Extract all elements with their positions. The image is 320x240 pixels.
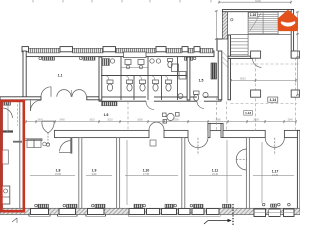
stair landing line [231, 33, 292, 36]
wc stall 4 toilet [153, 80, 159, 84]
arc [157, 122, 165, 130]
sanitary mid horizontal [101, 75, 187, 77]
room dim line 2 [86, 175, 112, 177]
svg-text:1.10: 1.10 [143, 169, 150, 173]
stair door knob circle [231, 19, 233, 21]
radiator south right [271, 204, 277, 207]
radiator under north window 1 [43, 57, 55, 60]
door arcs at 265-284 down [265, 138, 275, 148]
valve [193, 57, 196, 60]
valve [63, 204, 66, 207]
wc right room toilet [194, 91, 200, 94]
svg-text:1610: 1610 [89, 119, 95, 122]
room divider wall 1 [79, 138, 82, 209]
dashed hall column line 2 [295, 58, 297, 131]
room dim line 1 [30, 175, 75, 177]
room dim line 5 [253, 175, 294, 177]
east exterior wall lower [297, 130, 300, 209]
sink 1 [104, 59, 108, 63]
closet room1 a [27, 140, 34, 148]
valve [35, 204, 38, 207]
stair block south wall [228, 56, 253, 58]
sanitary block west wall [99, 57, 102, 100]
room 1.1 double door bump arc 2 [72, 90, 86, 97]
entrance arrow [208, 220, 231, 222]
stall door arc 1 [105, 76, 110, 81]
counter under north window 3 [124, 52, 147, 58]
stair exit arc [253, 58, 262, 67]
center dashed [274, 138, 276, 155]
wc stall 3 toilet [140, 80, 146, 84]
pier [156, 47, 166, 52]
corridor south wall segment B [164, 130, 188, 137]
svg-text:15,60: 15,60 [55, 173, 62, 176]
room interior dim vertical 2 [226, 140, 228, 203]
left unit stub wall 2 [13, 141, 22, 143]
corridor boxed label [244, 111, 253, 116]
hall dim ticks [230, 79, 297, 82]
valve [174, 204, 177, 207]
radiator south room3 a [134, 204, 143, 208]
stair west lower jog [217, 39, 222, 51]
corridor dimension line [26, 121, 296, 123]
room divider wall 4 [246, 138, 249, 209]
column pier hall SW [251, 90, 261, 97]
svg-text:6200: 6200 [255, 0, 261, 3]
left dim ticks [7, 103, 10, 132]
window [179, 209, 191, 215]
svg-text:14,20: 14,20 [272, 174, 279, 177]
unit door arc [2, 108, 12, 118]
corridor chair 3 [163, 120, 167, 124]
sink 3 [150, 59, 154, 63]
svg-text:1.14: 1.14 [269, 98, 276, 102]
right dim ticks [296, 11, 299, 96]
dashed hall horizontal [231, 63, 301, 65]
corridor chair 1 [163, 113, 167, 117]
room3 entry fixture [150, 140, 156, 146]
window sill [86, 214, 106, 216]
sanitary partition v4 [161, 76, 163, 101]
valve [278, 203, 281, 206]
sanitary partition v2 [133, 76, 135, 101]
column pier hall SE [291, 90, 299, 97]
window right 3 [284, 209, 294, 217]
left unit stub wall [0, 130, 13, 132]
upper fixture circle [126, 65, 130, 69]
valve circle [39, 57, 42, 60]
dashed grid v2 [226, 101, 228, 130]
hall dimension line [231, 80, 296, 82]
stair diagonal [250, 13, 262, 32]
left vertical dim line [7, 104, 9, 131]
hall west wall [228, 35, 231, 100]
valve [190, 204, 193, 207]
center dashed [197, 138, 199, 155]
bump center line [71, 90, 73, 97]
red highlight outline of unit [1, 101, 23, 211]
sink 4 [156, 59, 160, 63]
svg-text:1.9: 1.9 [92, 169, 97, 173]
dashed hall column line 1 [255, 58, 257, 130]
arc [236, 160, 246, 171]
fixture circle room 1.4 [178, 94, 183, 99]
corridor transverse double door arc right [48, 121, 54, 133]
west exterior wall lower [0, 100, 2, 210]
valve [92, 204, 95, 207]
arc [275, 138, 285, 148]
appliance box 1 [172, 64, 179, 72]
closet room1 b [34, 140, 41, 148]
stair block north wall [222, 10, 293, 12]
sanitary partition v5 [177, 57, 179, 100]
window [207, 209, 220, 215]
svg-text:1.6: 1.6 [104, 113, 109, 117]
door leaf [29, 100, 31, 111]
top dim ticks [218, 1, 292, 4]
door arc room TL [41, 87, 51, 97]
window ribbon [200, 48, 213, 53]
arc [198, 138, 208, 148]
valve circle [79, 57, 82, 60]
corridor north wall segment [87, 97, 100, 100]
transverse door knob [46, 143, 49, 146]
radiator south room1 b [67, 204, 78, 208]
pier [194, 47, 200, 52]
svg-text:5010: 5010 [240, 77, 246, 81]
door gap in sanitary south wall [197, 96, 204, 101]
radiator south room4 b [223, 204, 232, 208]
valve [288, 203, 291, 206]
wc stall 5 toilet [166, 80, 172, 84]
upper fixture a [125, 60, 131, 65]
watermark logo smile [281, 21, 296, 26]
room 1.1 double door bump arc 1 [57, 90, 71, 97]
pier [60, 47, 73, 52]
shower tray [103, 59, 110, 66]
radiator south room3 b [165, 204, 174, 208]
dashed corridor v [127, 101, 129, 130]
svg-text:2600: 2600 [253, 119, 259, 122]
stall counter line [121, 67, 148, 69]
boxed room label 1.14 [268, 97, 278, 102]
corridor south wall segment C [223, 130, 265, 137]
window ribbon [188, 48, 194, 53]
radiator south room1 a [38, 204, 49, 208]
stall door arc 4 [151, 76, 156, 81]
svg-text:1.8: 1.8 [56, 169, 61, 173]
left fixture circle [4, 189, 8, 193]
vestibule wall room1 [70, 138, 72, 154]
upper fixture circle b [139, 65, 143, 69]
corridor south wall segment A [54, 130, 149, 137]
room dim line 3 [125, 175, 178, 177]
steps upper flight [248, 12, 278, 34]
svg-text:9,80: 9,80 [92, 173, 97, 176]
highlighted unit east wall [20, 100, 25, 209]
room dim line 4 [189, 175, 242, 177]
corridor transverse lintel [42, 120, 54, 122]
bay connector right [221, 123, 223, 137]
north exterior wall band [23, 51, 214, 57]
divider door arcs x247 [236, 149, 246, 160]
stair west hatched wall [222, 10, 227, 39]
room divider wall 3 [182, 138, 185, 209]
dashed grid v1 [216, 97, 218, 130]
column pier hall NE [291, 51, 299, 58]
watermark logo house [278, 10, 298, 31]
window right 2 [269, 209, 281, 217]
column pier hall NW [251, 51, 261, 58]
stall door arc 2 [125, 76, 130, 81]
shaft hatch lines [223, 52, 228, 67]
pier [182, 47, 188, 52]
left fixture line [2, 196, 10, 198]
room interior dim vertical right [261, 142, 263, 203]
window ribbon hatch on north wall [29, 48, 61, 53]
door arc corridor left single [30, 100, 41, 111]
stall door arc 5 [164, 76, 169, 81]
sanitary partition v1 [120, 57, 122, 100]
dotted entrance line [232, 204, 234, 225]
dashed left unit [17, 100, 19, 126]
door leaf room TL [50, 87, 52, 97]
svg-text:1.17: 1.17 [272, 170, 279, 174]
svg-text:1.16: 1.16 [250, 13, 256, 17]
top remnant ticks [33, 0, 211, 2]
window right mullion lines [254, 212, 294, 215]
svg-text:1.1: 1.1 [58, 74, 63, 78]
radiator south room2 [95, 204, 105, 208]
south exterior wall hatched band [0, 208, 300, 214]
window sill [29, 214, 50, 216]
svg-text:2400: 2400 [59, 119, 65, 122]
small left mark [12, 218, 17, 223]
pier [22, 47, 29, 52]
door arcs at 149-164 [149, 122, 157, 130]
stall door arc 3 [138, 76, 143, 81]
transverse door center dashed [47, 133, 49, 143]
steps lower flight [231, 38, 249, 55]
stair block east wall [291, 10, 293, 58]
sanitary partition v3 [147, 57, 149, 100]
radiator under north window 2 [83, 57, 95, 60]
corridor chair 2 [176, 113, 180, 117]
window [31, 209, 49, 215]
top dim line over stairs [219, 1, 291, 3]
small wc upper [168, 59, 173, 62]
svg-text:1.13: 1.13 [245, 111, 251, 115]
window ribbon [73, 48, 104, 53]
window ribbon [116, 48, 157, 53]
valve [262, 203, 265, 206]
vestibule shelf [59, 152, 70, 154]
corridor table [167, 113, 174, 120]
svg-text:1540: 1540 [287, 119, 293, 122]
bath door arc 2 [197, 101, 204, 108]
sanitary partition v6 thick [187, 57, 190, 100]
radiator corridor left [102, 102, 118, 106]
sanitary block east wall [218, 51, 222, 100]
left unit bottom fixture [2, 186, 10, 204]
window sill [58, 214, 78, 216]
window [162, 209, 177, 215]
door arcs at 188-208 down [188, 138, 198, 148]
corridor transverse double door arc left [42, 121, 48, 133]
radiator south room4 a [194, 204, 204, 208]
svg-text:2010: 2010 [107, 119, 113, 122]
shaft hatched [211, 63, 217, 79]
right vertical dim line [296, 12, 298, 95]
radiator unit top [3, 101, 11, 105]
radiator room 1.5 top [185, 57, 193, 60]
stair stringers [247, 12, 250, 57]
dim slashes [25, 121, 297, 123]
corridor south wall bay (raised) [208, 123, 223, 130]
room divider wall 2 [117, 138, 120, 209]
stair label box [249, 13, 258, 18]
corridor north wall left segment [0, 97, 41, 100]
stair west dim line [215, 11, 217, 39]
knob circle [43, 142, 47, 146]
bay connector left [208, 123, 210, 137]
svg-text:1.11: 1.11 [212, 169, 219, 173]
svg-text:1980: 1980 [215, 119, 221, 122]
sink 2 [110, 59, 114, 63]
svg-text:16,40: 16,40 [212, 173, 219, 176]
wc stall 1 toilet [107, 80, 113, 84]
valve [143, 204, 146, 207]
low wall left of door [24, 139, 42, 141]
window [147, 209, 160, 215]
bath door arc 1 [146, 101, 154, 109]
upper fixture b [138, 60, 144, 65]
room interior dim vertical [126, 140, 128, 205]
sanitary block south wall [99, 97, 221, 101]
svg-text:1830: 1830 [37, 119, 43, 122]
dim ticks corridor [26, 120, 296, 123]
wc stall 2 toilet [127, 80, 133, 84]
window [59, 209, 76, 215]
appliance box 2 [179, 72, 186, 80]
window ribbon [166, 48, 182, 53]
svg-text:17,35: 17,35 [143, 173, 150, 176]
sill strip mid [128, 214, 220, 216]
window [129, 209, 145, 215]
svg-text:2800: 2800 [137, 119, 143, 122]
door gap in sanitary south wall [146, 96, 154, 101]
sink right room [203, 92, 208, 97]
west exterior wall upper [23, 51, 26, 100]
window [88, 209, 105, 215]
window right 1 [254, 209, 266, 217]
vestibule door arc [60, 141, 71, 152]
center dashed [236, 159, 247, 161]
svg-text:2390: 2390 [173, 119, 179, 122]
dashed hall ceiling line [231, 103, 298, 105]
window [192, 209, 204, 215]
pier [103, 47, 116, 52]
corridor south wall segment D [284, 130, 300, 137]
left unit counter [2, 150, 9, 164]
svg-text:1.5: 1.5 [199, 79, 204, 83]
